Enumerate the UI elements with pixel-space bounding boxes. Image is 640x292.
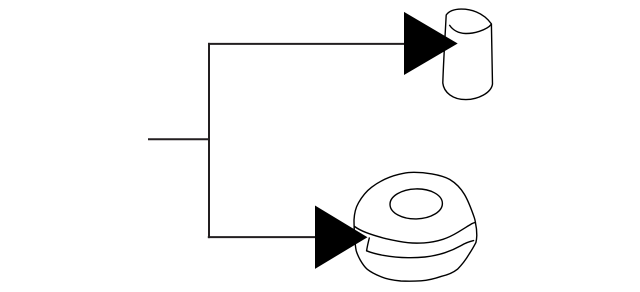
arrow to cylinder part — [404, 12, 458, 75]
wire: top branch — [208, 43, 405, 45]
wire: left stub — [148, 138, 210, 140]
part: cylinder (plug) — [443, 9, 493, 100]
part: grommet (bushing) — [354, 172, 477, 281]
grommet outer silhouette — [354, 172, 477, 281]
grommet lower groove — [367, 241, 474, 258]
wire: vertical trunk — [208, 43, 210, 238]
grommet top-face front edge — [355, 222, 476, 243]
arrow to grommet part — [315, 206, 368, 269]
grommet groove waist edge — [367, 238, 370, 251]
grommet hole — [390, 188, 443, 219]
wire: bottom branch — [208, 236, 316, 238]
